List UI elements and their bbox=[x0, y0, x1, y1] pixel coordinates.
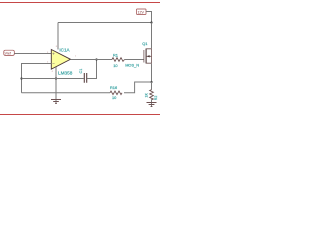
wire op-amp V- stub to ground bbox=[55, 67, 57, 104]
wire R2 to ground bbox=[151, 99, 153, 106]
svg-text:8: 8 bbox=[56, 46, 58, 48]
net label VREF bbox=[4, 50, 15, 56]
resistor R2 bbox=[144, 90, 158, 101]
svg-text:R1: R1 bbox=[113, 53, 118, 58]
capacitor C1 bbox=[79, 69, 87, 83]
svg-text:MOS_N: MOS_N bbox=[125, 63, 139, 68]
wire op-amp inverting input loop bbox=[22, 64, 52, 93]
wire Q1 source down bbox=[151, 64, 153, 83]
wire op-amp output to R1 bbox=[71, 59, 113, 61]
transistor Q1 MOS_N bbox=[125, 41, 151, 68]
wire rail to Q1 drain bbox=[151, 23, 153, 49]
sheet border bottom bbox=[0, 114, 160, 116]
resistor R1 bbox=[112, 53, 125, 68]
power label 12V bbox=[137, 9, 147, 15]
junction output / cap branch bbox=[95, 58, 97, 60]
wire B: feedback from source junction to R16 bbox=[124, 82, 152, 93]
svg-text:Q1: Q1 bbox=[142, 41, 147, 46]
svg-text:LM358: LM358 bbox=[58, 70, 73, 75]
ground right bbox=[147, 103, 157, 107]
svg-text:R16: R16 bbox=[110, 85, 117, 90]
sheet border top bbox=[0, 2, 160, 4]
ground under op-amp bbox=[51, 100, 61, 104]
wire R2 top bbox=[151, 82, 153, 90]
wire A: feedback cap branch left bbox=[22, 78, 84, 80]
svg-text:1K: 1K bbox=[144, 93, 148, 98]
junction rail / drain drop bbox=[150, 21, 152, 23]
junction source / feedback bbox=[150, 81, 152, 83]
resistor R16 bbox=[110, 85, 122, 100]
svg-text:R2: R2 bbox=[154, 96, 158, 101]
junction minus loop / wire A bbox=[20, 77, 22, 79]
svg-text:Vref: Vref bbox=[5, 52, 11, 56]
wire R1 to Q1 gate bbox=[125, 59, 145, 61]
wire B: R16 to minus loop bbox=[22, 92, 111, 94]
svg-text:10: 10 bbox=[113, 63, 118, 68]
svg-text:1: 1 bbox=[75, 56, 77, 58]
wire 12V label to rail bbox=[146, 12, 152, 23]
wire op-amp V+ stub bbox=[57, 23, 59, 50]
wire A: cap to output branch bbox=[87, 60, 97, 79]
svg-text:12V: 12V bbox=[138, 11, 145, 15]
svg-text:IC1A: IC1A bbox=[59, 48, 70, 53]
op-amp U1 IC1A LM358 bbox=[47, 46, 77, 75]
junction V- on wire A bbox=[55, 77, 57, 79]
wire Vref to op-amp + input bbox=[14, 53, 51, 55]
wire top supply rail bbox=[58, 22, 152, 24]
svg-text:C1: C1 bbox=[79, 69, 83, 74]
svg-text:10: 10 bbox=[112, 95, 117, 100]
svg-text:4: 4 bbox=[52, 71, 54, 73]
